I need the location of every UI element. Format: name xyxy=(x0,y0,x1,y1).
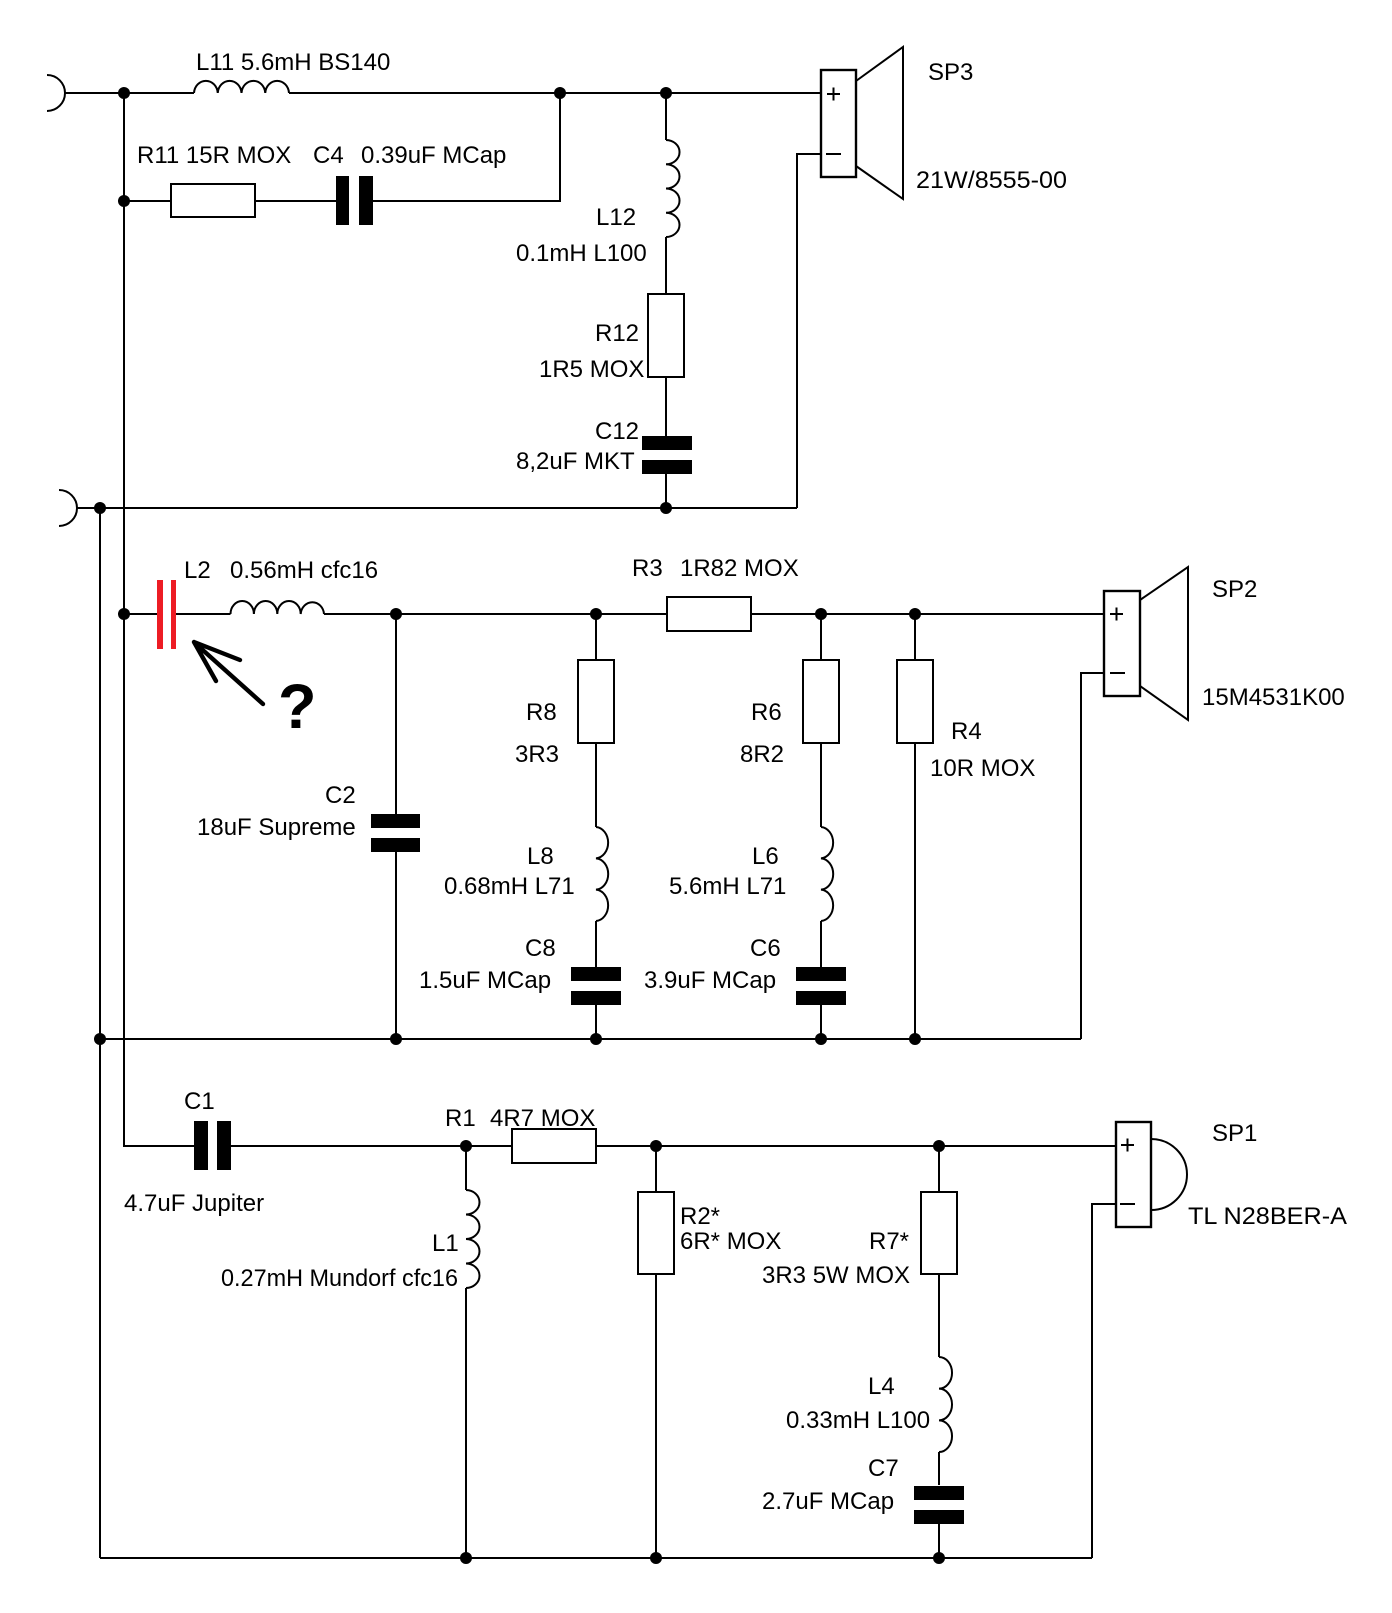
node L2 row / R6 branch xyxy=(815,608,827,620)
node C1 row / R7 branch xyxy=(933,1140,945,1152)
svg-text:L2: L2 xyxy=(184,557,211,584)
node mid rail / C2 xyxy=(390,1033,402,1045)
resistor R1 xyxy=(512,1129,596,1163)
svg-text:1.5uF MCap: 1.5uF MCap xyxy=(419,967,551,994)
svg-text:R7*: R7* xyxy=(869,1228,909,1255)
wire L2 row right xyxy=(324,613,1104,615)
svg-text:0.68mH L71: 0.68mH L71 xyxy=(444,873,575,900)
wire R4 to rail xyxy=(914,743,916,1039)
svg-text:?: ? xyxy=(278,672,316,742)
svg-text:R1: R1 xyxy=(445,1105,476,1132)
wire C8 to rail xyxy=(595,1005,597,1039)
inductor L4 xyxy=(939,1357,952,1452)
node bottom rail / L1 xyxy=(460,1552,472,1564)
wire SP2 minus return xyxy=(1081,673,1104,1039)
wire R2 to rail xyxy=(655,1274,657,1558)
svg-text:0.1mH L100: 0.1mH L100 xyxy=(516,240,647,267)
wire C2 to rail xyxy=(395,852,397,1039)
wire R4 branch top xyxy=(914,614,916,660)
svg-text:C4: C4 xyxy=(313,142,344,169)
svg-text:21W/8555-00: 21W/8555-00 xyxy=(916,167,1067,194)
capacitor L2 input (red) xyxy=(157,580,163,649)
wire R12 to C12 xyxy=(665,377,667,436)
wire L1 branch top xyxy=(465,1146,467,1190)
wire red cap to L2 xyxy=(176,613,231,615)
svg-text:C6: C6 xyxy=(750,935,781,962)
svg-text:SP1: SP1 xyxy=(1212,1120,1257,1147)
wire L12 to R12 xyxy=(665,237,667,294)
svg-text:L8: L8 xyxy=(527,843,554,870)
node L2 row / C2 branch xyxy=(390,608,402,620)
inductor L12 xyxy=(666,140,680,237)
svg-text:C12: C12 xyxy=(595,418,639,445)
svg-text:SP3: SP3 xyxy=(928,59,973,86)
svg-text:0.39uF MCap: 0.39uF MCap xyxy=(361,142,506,169)
svg-text:L4: L4 xyxy=(868,1373,895,1400)
node input2 / minus vertical xyxy=(94,502,106,514)
capacitor C4 xyxy=(336,176,349,225)
svg-text:R3: R3 xyxy=(632,555,663,582)
svg-text:C7: C7 xyxy=(868,1455,899,1482)
resistor R11 xyxy=(171,184,255,217)
annotation arrow xyxy=(194,642,263,704)
speaker SP3 xyxy=(821,70,856,177)
wire C12 to rail2 xyxy=(665,473,667,508)
wire R2 branch top xyxy=(655,1146,657,1192)
wire C7 to rail xyxy=(938,1524,940,1558)
svg-text:R2*: R2* xyxy=(680,1203,720,1230)
svg-text:8R2: 8R2 xyxy=(740,741,784,768)
wire SP3 minus return xyxy=(797,154,821,508)
input terminal 2 (minus) xyxy=(59,490,77,526)
svg-text:5.6mH L71: 5.6mH L71 xyxy=(669,873,786,900)
svg-text:4R7 MOX: 4R7 MOX xyxy=(490,1105,595,1132)
node R11 branch xyxy=(118,195,130,207)
svg-text:R6: R6 xyxy=(751,699,782,726)
resistor R2* xyxy=(638,1192,674,1274)
node C1 row / R2 branch xyxy=(650,1140,662,1152)
inductor L6 xyxy=(821,827,833,921)
node L2 row / main vertical xyxy=(118,608,130,620)
node L2 row / R4 branch xyxy=(909,608,921,620)
wire C4 to top rail xyxy=(373,93,560,201)
wire bottom ground rail xyxy=(100,1557,1092,1559)
svg-text:SP2: SP2 xyxy=(1212,576,1257,603)
wire L1 to rail xyxy=(465,1288,467,1558)
svg-text:L6: L6 xyxy=(752,843,779,870)
wire L8 to C8 xyxy=(595,921,597,967)
wire C6 to rail xyxy=(820,1005,822,1039)
wire R6 branch top xyxy=(820,614,822,660)
wire main positive vertical xyxy=(124,93,194,1146)
wire R7 branch top xyxy=(938,1146,940,1192)
node mid rail / minus vertical xyxy=(94,1033,106,1045)
wire R8 to L8 xyxy=(595,743,597,827)
resistor R6 xyxy=(803,660,839,743)
resistor R8 xyxy=(578,660,614,743)
capacitor C1 xyxy=(194,1121,208,1170)
svg-text:15M4531K00: 15M4531K00 xyxy=(1202,684,1345,711)
svg-text:4.7uF Jupiter: 4.7uF Jupiter xyxy=(124,1190,264,1217)
wire minus vertical main xyxy=(99,508,101,1558)
svg-text:3R3 5W MOX: 3R3 5W MOX xyxy=(762,1262,910,1289)
node bottom rail / R2 xyxy=(650,1552,662,1564)
speaker SP1 (tweeter) xyxy=(1116,1122,1151,1227)
node mid rail / C6 xyxy=(815,1033,827,1045)
svg-text:R8: R8 xyxy=(526,699,557,726)
wire L12 branch top xyxy=(665,93,667,140)
node top rail / C4 riser xyxy=(554,87,566,99)
inductor L1 xyxy=(466,1190,480,1288)
wire top rail right xyxy=(289,92,821,94)
svg-text:1R82 MOX: 1R82 MOX xyxy=(680,555,799,582)
svg-text:R12: R12 xyxy=(595,320,639,347)
wire R6 to L6 xyxy=(820,743,822,827)
svg-text:L12: L12 xyxy=(596,204,636,231)
wire top rail left xyxy=(65,92,194,94)
resistor R4 xyxy=(897,660,933,743)
wire R7 to L4 xyxy=(938,1274,940,1357)
wire R8 branch top xyxy=(595,614,597,660)
svg-text:C2: C2 xyxy=(325,782,356,809)
node C1 row / L1 branch xyxy=(460,1140,472,1152)
wire mid ground rail xyxy=(100,1038,1081,1040)
svg-text:C8: C8 xyxy=(525,935,556,962)
resistor R12 xyxy=(648,294,684,377)
inductor L2 xyxy=(231,601,325,614)
svg-text:18uF Supreme: 18uF Supreme xyxy=(197,814,356,841)
resistor R3 xyxy=(667,597,751,631)
node rail2 / C12 bottom xyxy=(660,502,672,514)
wire L2 row left xyxy=(124,613,157,615)
svg-text:0.33mH L100: 0.33mH L100 xyxy=(786,1407,930,1434)
node top rail / L12 branch xyxy=(660,87,672,99)
node mid rail / C8 xyxy=(590,1033,602,1045)
svg-text:0.27mH Mundorf cfc16: 0.27mH Mundorf cfc16 xyxy=(221,1265,458,1292)
wire R11 branch left xyxy=(124,200,336,202)
svg-text:R4: R4 xyxy=(951,718,982,745)
wire C2 branch top xyxy=(395,614,397,814)
svg-text:8,2uF MKT: 8,2uF MKT xyxy=(516,448,635,475)
svg-text:6R* MOX: 6R* MOX xyxy=(680,1228,781,1255)
inductor L11 xyxy=(194,81,289,93)
capacitor C6 xyxy=(796,967,846,981)
capacitor C12 xyxy=(642,436,692,450)
svg-text:10R MOX: 10R MOX xyxy=(930,755,1035,782)
wire L6 to C6 xyxy=(820,921,822,967)
wire C1 row xyxy=(231,1145,1116,1147)
wire SP1 minus return xyxy=(1092,1204,1116,1558)
svg-text:TL N28BER-A: TL N28BER-A xyxy=(1188,1203,1347,1230)
inductor L8 xyxy=(596,827,608,921)
node mid rail / R4 xyxy=(909,1033,921,1045)
svg-text:L1: L1 xyxy=(432,1230,459,1257)
svg-text:3R3: 3R3 xyxy=(515,741,559,768)
input terminal 1 (plus) xyxy=(47,75,65,111)
wire L4 to C7 xyxy=(938,1452,940,1485)
svg-text:2.7uF MCap: 2.7uF MCap xyxy=(762,1488,894,1515)
wire rail 2 xyxy=(77,507,797,509)
svg-text:R11 15R MOX: R11 15R MOX xyxy=(137,142,291,169)
node bottom rail / R7 xyxy=(933,1552,945,1564)
speaker SP2 xyxy=(1104,591,1140,696)
node top rail / main vertical xyxy=(118,87,130,99)
resistor R7* xyxy=(921,1192,957,1274)
svg-text:L11 5.6mH BS140: L11 5.6mH BS140 xyxy=(196,49,390,76)
capacitor C8 xyxy=(571,967,621,981)
svg-text:3.9uF MCap: 3.9uF MCap xyxy=(644,967,776,994)
svg-text:0.56mH cfc16: 0.56mH cfc16 xyxy=(230,557,378,584)
capacitor C2 xyxy=(371,814,420,828)
svg-text:C1: C1 xyxy=(184,1088,215,1115)
svg-text:1R5 MOX: 1R5 MOX xyxy=(539,356,644,383)
capacitor C7 xyxy=(914,1486,964,1500)
node L2 row / R8 branch xyxy=(590,608,602,620)
